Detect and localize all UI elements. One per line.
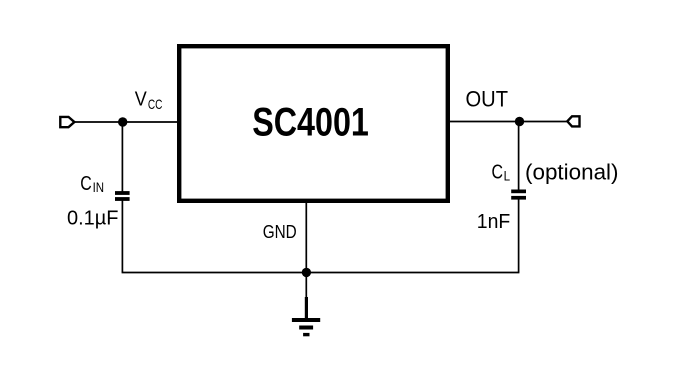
svg-text:SC4001: SC4001: [252, 101, 369, 145]
svg-text:(optional): (optional): [525, 160, 619, 185]
svg-text:GND: GND: [263, 222, 297, 242]
svg-text:CC: CC: [148, 96, 163, 112]
svg-text:C: C: [80, 172, 92, 195]
svg-text:L: L: [504, 168, 511, 184]
svg-text:V: V: [135, 89, 148, 111]
svg-text:0.1µF: 0.1µF: [67, 208, 119, 230]
svg-text:OUT: OUT: [466, 87, 509, 112]
svg-text:IN: IN: [93, 179, 105, 195]
svg-text:C: C: [492, 161, 504, 184]
svg-text:1nF: 1nF: [477, 211, 511, 233]
